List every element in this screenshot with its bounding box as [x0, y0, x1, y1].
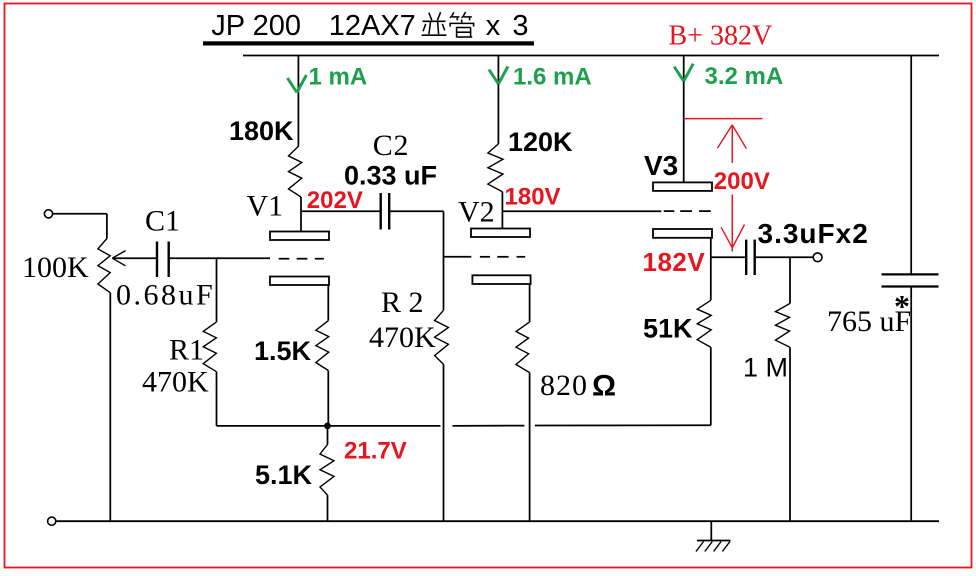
- svg-text:202V: 202V: [307, 187, 363, 214]
- svg-text:180K: 180K: [229, 116, 294, 146]
- svg-text:51K: 51K: [643, 314, 693, 344]
- svg-text:182V: 182V: [643, 247, 706, 277]
- svg-text:Ω: Ω: [592, 370, 616, 403]
- svg-text:100K: 100K: [22, 251, 89, 284]
- svg-text:120K: 120K: [508, 127, 573, 157]
- svg-text:470K: 470K: [142, 366, 209, 399]
- svg-text:1.6 mA: 1.6 mA: [513, 64, 592, 91]
- svg-text:JP 200: JP 200: [211, 10, 301, 42]
- svg-text:B+ 382V: B+ 382V: [669, 21, 773, 52]
- svg-text:C1: C1: [145, 205, 180, 238]
- svg-text:470K: 470K: [369, 321, 436, 354]
- svg-text:5.1K: 5.1K: [255, 460, 313, 490]
- svg-text:V2: V2: [458, 195, 495, 228]
- svg-text:200V: 200V: [714, 168, 770, 195]
- svg-text:765 uF: 765 uF: [827, 305, 911, 338]
- svg-text:3.3uFx2: 3.3uFx2: [758, 218, 869, 249]
- svg-text:1 mA: 1 mA: [309, 64, 368, 91]
- svg-text:3.2 mA: 3.2 mA: [705, 63, 784, 90]
- svg-text:1 M: 1 M: [743, 353, 788, 383]
- svg-text:820: 820: [540, 369, 588, 402]
- svg-text:x: x: [486, 10, 501, 42]
- svg-text:V3: V3: [644, 150, 678, 181]
- svg-text:0.33 uF: 0.33 uF: [344, 161, 437, 191]
- svg-text:R1: R1: [169, 334, 204, 367]
- svg-text:1.5K: 1.5K: [254, 336, 312, 366]
- svg-text:C: C: [373, 129, 393, 162]
- svg-text:R 2: R 2: [381, 286, 424, 319]
- svg-text:12AX7: 12AX7: [329, 10, 416, 42]
- svg-text:180V: 180V: [505, 184, 561, 211]
- svg-text:0.68uF: 0.68uF: [116, 279, 215, 312]
- svg-text:2: 2: [394, 129, 409, 162]
- svg-text:3: 3: [512, 10, 528, 42]
- svg-text:21.7V: 21.7V: [344, 437, 407, 464]
- svg-text:V1: V1: [247, 189, 284, 222]
